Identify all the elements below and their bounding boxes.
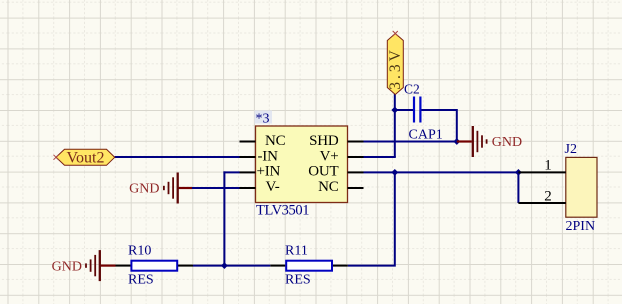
wire SHD to GND node <box>364 141 457 143</box>
pin V+ right pin 7 <box>348 156 364 158</box>
svg-text:SHD: SHD <box>309 133 339 149</box>
svg-text:GND: GND <box>129 182 159 197</box>
wire C2 down to GND node <box>456 109 458 142</box>
wire 3.3V vertical <box>394 94 396 158</box>
pin name V- <box>266 179 280 195</box>
junction node at J2 <box>515 169 522 176</box>
svg-text:CAP1: CAP1 <box>409 128 443 143</box>
junction node at OUT <box>391 169 398 176</box>
svg-text:R10: R10 <box>128 243 151 258</box>
svg-text:2: 2 <box>544 188 552 204</box>
designator C2 <box>404 82 420 97</box>
svg-text:-IN: -IN <box>258 148 279 164</box>
svg-text:Vout2: Vout2 <box>67 150 105 167</box>
wire GND to V- <box>191 187 240 189</box>
pin name NC <box>265 133 286 149</box>
svg-text:TLV3501: TLV3501 <box>256 202 309 218</box>
svg-text:R11: R11 <box>285 243 308 258</box>
svg-text:3.3V: 3.3V <box>387 47 404 90</box>
value label TLV3501 <box>256 202 309 218</box>
svg-text:V-: V- <box>266 179 280 195</box>
pin name SHD <box>309 133 339 149</box>
svg-text:RES: RES <box>128 273 154 288</box>
ground GND right of C2 <box>457 126 522 157</box>
value label RES of R11 <box>285 273 311 288</box>
pin name +IN <box>257 164 281 180</box>
designator R10 <box>128 243 151 258</box>
svg-text:J2: J2 <box>565 142 577 157</box>
svg-text:+IN: +IN <box>257 164 281 180</box>
pin +IN left pin 3 <box>240 171 256 173</box>
wire vertical +IN to resistor node <box>223 171 225 265</box>
wire -IN from Vout2 port <box>115 156 240 158</box>
value label CAP1 <box>409 128 443 143</box>
junction node at 3.3V/C2 <box>391 107 398 114</box>
connector J2 body <box>566 157 597 217</box>
pin number 1 <box>544 157 552 173</box>
pin V- left pin 4 <box>240 187 256 189</box>
pin name -IN <box>258 148 279 164</box>
svg-text:C2: C2 <box>404 82 420 97</box>
designator R11 <box>285 243 308 258</box>
resistor R10 <box>116 261 194 271</box>
value label 2PIN <box>566 219 596 234</box>
resistor R11 <box>270 261 348 271</box>
pin NC left pin 1 <box>240 141 256 143</box>
no-ERC marker at 3.3V <box>393 31 398 36</box>
svg-text:RES: RES <box>285 273 311 288</box>
wire OUT down to R11 <box>348 172 395 265</box>
junction node at R10/R11 <box>221 262 228 269</box>
pin SHD right pin 8 <box>348 141 364 143</box>
wire +IN horizontal <box>223 171 239 173</box>
ground GND at R10 <box>52 250 116 281</box>
designator J2 <box>565 142 577 157</box>
wire to C2 left <box>395 109 413 111</box>
capacitor C2 <box>414 97 420 123</box>
wire R10 to node <box>193 265 224 267</box>
power port 3.3V <box>387 34 404 95</box>
pin name V+ <box>320 148 339 164</box>
svg-text:*3: *3 <box>256 111 270 126</box>
svg-text:V+: V+ <box>320 148 339 164</box>
svg-text:GND: GND <box>52 260 82 275</box>
wire node to R11 <box>224 265 270 267</box>
svg-text:2PIN: 2PIN <box>566 219 596 234</box>
pin 1 of J2 <box>518 171 565 173</box>
pin NC right pin 5 <box>348 187 364 189</box>
svg-text:GND: GND <box>492 135 522 150</box>
pin name NC right <box>318 179 339 195</box>
wire C2 right <box>421 109 457 111</box>
wire OUT to J2 <box>364 171 519 173</box>
designator *3 <box>255 111 273 127</box>
wire V+ horizontal <box>364 156 396 158</box>
wire J2 pin1 to pin2 <box>517 171 519 203</box>
port Vout2 <box>56 149 115 166</box>
ground GND at V- <box>129 173 192 204</box>
pin number 2 <box>544 188 552 204</box>
svg-text:NC: NC <box>265 133 286 149</box>
svg-text:NC: NC <box>318 179 339 195</box>
svg-text:OUT: OUT <box>308 164 338 180</box>
pin -IN left pin 2 <box>240 156 256 158</box>
junction node at C2/GND/SHD <box>453 138 460 145</box>
pin 2 of J2 <box>518 202 565 204</box>
op-amp U3 TLV3501 body <box>256 126 348 203</box>
no-ERC marker at Vout2 <box>54 155 59 160</box>
pin OUT right pin 6 <box>348 171 364 173</box>
pin name OUT <box>308 164 338 180</box>
value label RES <box>128 273 154 288</box>
svg-text:1: 1 <box>544 157 552 173</box>
